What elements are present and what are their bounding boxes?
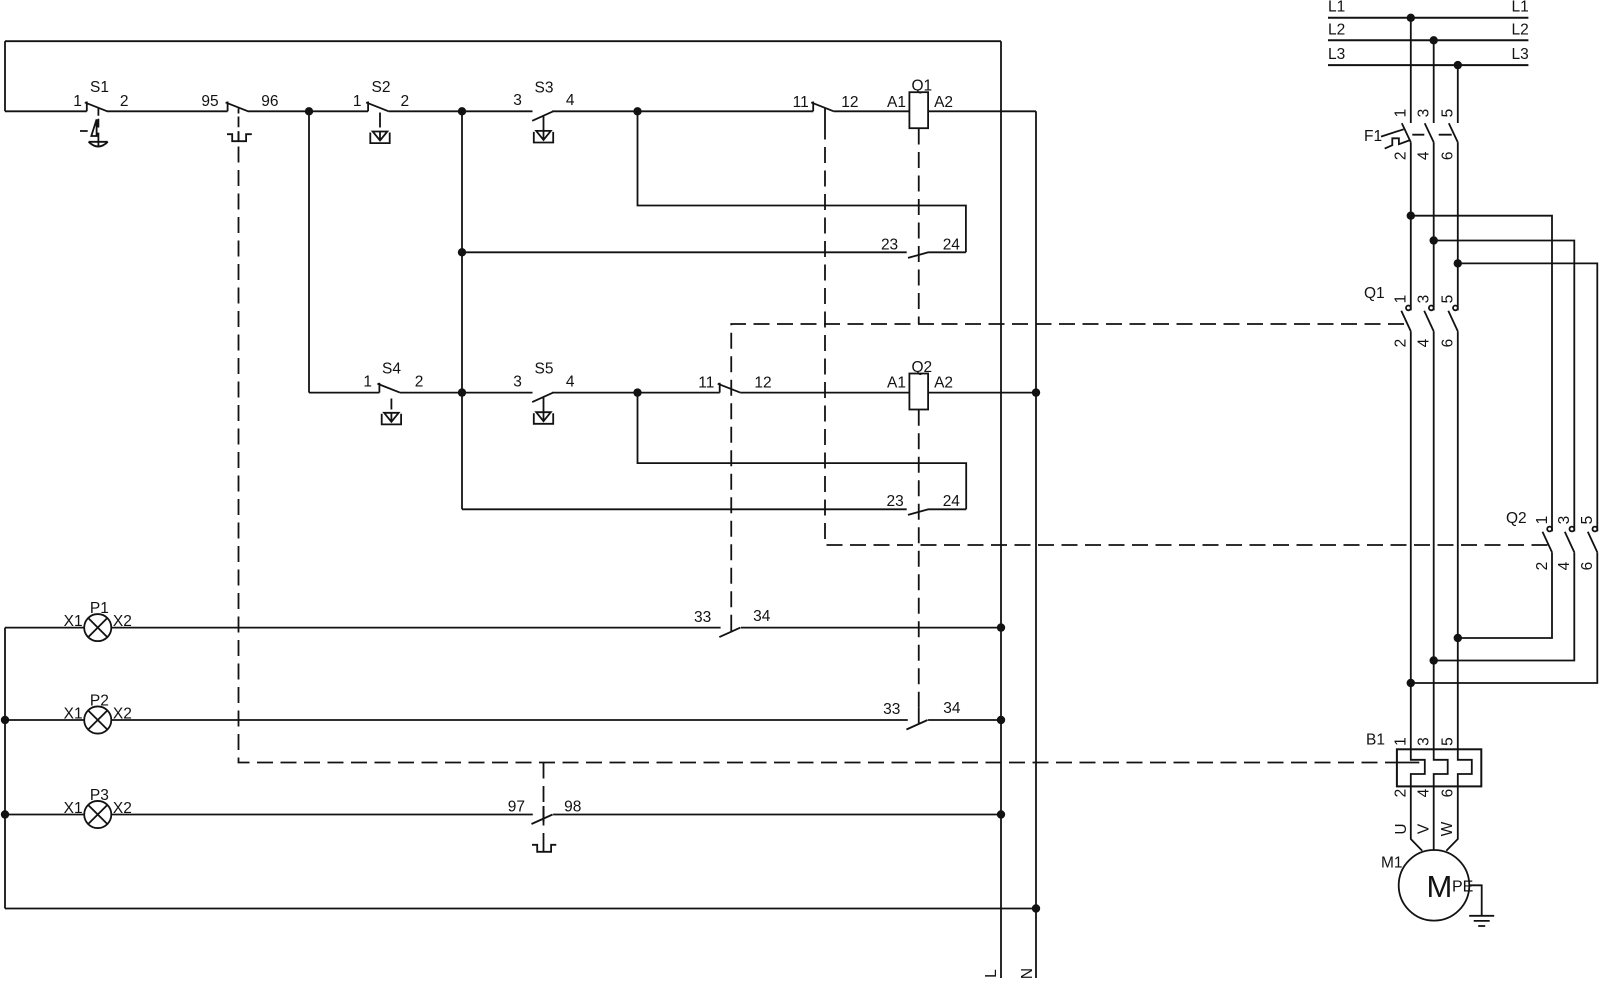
wire bottom rail N — [5, 908, 1036, 910]
svg-text:N: N — [1019, 968, 1036, 979]
svg-text:3: 3 — [1416, 295, 1433, 304]
contact 33-34 Q2 — [906, 707, 927, 729]
wire Q2 out1 to col3 — [1458, 552, 1552, 638]
contactor Q2 pole2 — [1565, 532, 1575, 552]
svg-text:P1: P1 — [90, 600, 109, 617]
contactor Q1 pole1 — [1401, 311, 1411, 331]
svg-text:4: 4 — [1416, 151, 1433, 160]
svg-text:5: 5 — [1440, 295, 1457, 304]
svg-text:B1: B1 — [1366, 732, 1385, 749]
contactor Q1 pole2 — [1424, 311, 1434, 331]
svg-text:X1: X1 — [64, 613, 83, 630]
svg-text:11: 11 — [793, 94, 809, 111]
wire S2-S4 junction vertical — [461, 111, 463, 509]
node L vertical — [1000, 41, 1002, 978]
svg-text:Q2: Q2 — [1506, 510, 1527, 527]
svg-text:1: 1 — [1534, 516, 1551, 525]
bus L1 — [1328, 17, 1528, 19]
svg-text:4: 4 — [1416, 788, 1433, 797]
breaker F1 pole2 — [1425, 123, 1434, 142]
contact 23-24 Q2 — [908, 509, 928, 515]
junction dots power — [1407, 14, 1462, 688]
svg-text:1: 1 — [1393, 737, 1410, 746]
svg-text:Q1: Q1 — [911, 78, 932, 95]
breaker F1 label leader — [1381, 129, 1404, 136]
svg-text:6: 6 — [1440, 789, 1457, 798]
contact 97-98 trip symbol — [532, 842, 556, 852]
pushbutton S3 — [532, 111, 553, 139]
coil Q2 — [909, 374, 928, 410]
svg-text:A1: A1 — [887, 94, 906, 111]
svg-text:4: 4 — [566, 374, 575, 391]
svg-text:L1: L1 — [1328, 0, 1345, 16]
wire row2 branch to latch Q2 — [638, 393, 967, 510]
breaker F1 pole links — [1412, 134, 1451, 136]
junction dots control — [1, 107, 1040, 913]
pushbutton S2 actuator — [370, 132, 389, 144]
svg-text:S3: S3 — [535, 79, 554, 96]
wire column3 L3 — [1457, 65, 1459, 749]
svg-text:L: L — [983, 969, 1000, 978]
svg-text:97: 97 — [508, 798, 525, 815]
contact 11-12 Q2 row1 — [811, 102, 834, 124]
relay B1 box — [1397, 749, 1481, 786]
mech link F1 aux chain to B1 — [239, 147, 1397, 763]
mech link solid overlays — [239, 131, 544, 822]
mech link Q1 coil chain down — [918, 129, 920, 325]
node N vertical — [1035, 111, 1037, 978]
SEC-DASHED — [1328, 18, 1528, 65]
svg-text:1: 1 — [73, 93, 82, 110]
svg-text:34: 34 — [943, 700, 961, 717]
mech link 97-98 stem — [543, 763, 545, 842]
svg-text:U: U — [1393, 823, 1410, 834]
svg-text:4: 4 — [566, 92, 575, 109]
breaker F1 pole3 — [1449, 123, 1458, 142]
contact 11-12 Q1 row2 — [718, 383, 741, 393]
svg-text:3: 3 — [513, 92, 522, 109]
mech link Q1 chain horizontal and down to 33-34 P1 — [731, 324, 1404, 615]
relay B1 element1 — [1411, 749, 1425, 786]
mech link Q2 chain: 11-12 row1 down to Q2 power — [825, 124, 1548, 546]
svg-text:A1: A1 — [887, 374, 906, 391]
wire row2 segments — [309, 392, 1036, 394]
svg-text:X2: X2 — [113, 706, 132, 723]
wire B1 to motor W — [1446, 786, 1458, 850]
contactor Q2 pole3 — [1588, 532, 1598, 552]
contact 33-34 Q1 — [719, 615, 740, 637]
svg-text:12: 12 — [754, 374, 771, 391]
wire latch Q1 row — [462, 251, 966, 253]
contact 23-24 Q1 — [908, 252, 928, 258]
wire Q2 out3 to col1 — [1411, 552, 1598, 683]
svg-text:M1: M1 — [1381, 855, 1403, 872]
pushbutton S5 actuator — [534, 412, 553, 424]
svg-text:S2: S2 — [372, 79, 391, 96]
mech link Q2 coil chain down to 33-34 P2 — [918, 410, 920, 707]
lamp P1 — [84, 614, 111, 641]
svg-text:24: 24 — [943, 493, 961, 510]
svg-text:5: 5 — [1579, 516, 1596, 525]
svg-text:2: 2 — [415, 374, 424, 391]
svg-text:1: 1 — [363, 374, 372, 391]
svg-text:PE: PE — [1452, 878, 1473, 895]
contactor Q1 pole3 — [1448, 311, 1458, 331]
mech link S4 — [390, 399, 392, 410]
relay B1 element2 — [1434, 749, 1448, 786]
svg-text:X1: X1 — [64, 800, 83, 817]
wire branch L3 to Q2 — [1458, 263, 1598, 531]
svg-text:2: 2 — [1534, 562, 1551, 571]
pushbutton S4 — [377, 383, 400, 393]
svg-text:6: 6 — [1440, 339, 1457, 348]
wire latch Q2 row — [462, 508, 966, 510]
mech link B1 entry solid — [1397, 762, 1419, 764]
SEC-CONTROL — [239, 124, 1549, 842]
svg-text:L1: L1 — [1512, 0, 1529, 16]
svg-text:A2: A2 — [934, 94, 953, 111]
svg-text:1: 1 — [1393, 109, 1410, 118]
breaker F1 trip symbol — [1385, 138, 1410, 148]
svg-text:S1: S1 — [90, 79, 109, 96]
switch S1 actuator — [80, 119, 108, 146]
contactor Q2 pole1 — [1543, 532, 1553, 552]
pushbutton S4 actuator — [382, 413, 401, 425]
bus L3 — [1328, 64, 1528, 66]
svg-text:6: 6 — [1440, 151, 1457, 160]
wire row1 segments — [5, 110, 1036, 112]
svg-text:W: W — [1439, 821, 1456, 836]
svg-text:33: 33 — [883, 701, 900, 718]
svg-text:3: 3 — [1556, 516, 1573, 525]
svg-text:1: 1 — [353, 93, 362, 110]
contact 97-98 F1 — [532, 806, 553, 824]
wire branch L1 to Q2 — [1411, 216, 1552, 532]
svg-text:34: 34 — [753, 608, 771, 625]
wire B1 to motor V — [1433, 786, 1435, 849]
svg-text:P3: P3 — [90, 787, 109, 804]
ground wire — [1469, 885, 1481, 916]
svg-text:Q1: Q1 — [1364, 285, 1385, 302]
svg-text:F1: F1 — [1364, 128, 1382, 145]
svg-text:1: 1 — [1393, 295, 1410, 304]
pushbutton S2 — [366, 102, 389, 112]
svg-text:A2: A2 — [934, 374, 953, 391]
svg-text:L3: L3 — [1512, 46, 1529, 63]
svg-text:2: 2 — [1393, 151, 1410, 160]
svg-text:X1: X1 — [64, 706, 83, 723]
pushbutton S5 — [532, 393, 553, 421]
wire B1 to motor U — [1411, 786, 1422, 850]
svg-text:33: 33 — [694, 609, 711, 626]
bus L2 — [1328, 39, 1528, 41]
svg-text:P2: P2 — [90, 693, 109, 710]
wire lamp left vertical — [4, 628, 6, 909]
lamp P3 — [84, 801, 111, 828]
svg-text:2: 2 — [1393, 789, 1410, 798]
svg-text:L3: L3 — [1328, 46, 1345, 63]
svg-text:M: M — [1427, 869, 1453, 904]
svg-text:5: 5 — [1440, 109, 1457, 118]
svg-text:V: V — [1416, 823, 1433, 834]
svg-text:12: 12 — [841, 94, 858, 111]
wire row1 branch to latch Q1 — [638, 111, 966, 252]
svg-text:L2: L2 — [1328, 22, 1345, 39]
ground symbol — [1469, 916, 1494, 926]
svg-text:23: 23 — [881, 237, 898, 254]
svg-text:X2: X2 — [113, 613, 132, 630]
motor M1 — [1399, 850, 1470, 921]
wire branch L2 to Q2 — [1434, 241, 1575, 532]
svg-text:S5: S5 — [535, 361, 554, 378]
wire column1 L1 — [1410, 18, 1412, 750]
svg-text:L2: L2 — [1512, 22, 1529, 39]
breaker F1 pole1 — [1402, 123, 1411, 142]
wire P3 row — [5, 814, 1001, 816]
relay B1 element3 — [1458, 749, 1472, 786]
svg-text:4: 4 — [1556, 561, 1573, 570]
wire column2 L2 — [1433, 40, 1435, 749]
svg-text:X2: X2 — [113, 800, 132, 817]
svg-text:3: 3 — [1416, 737, 1433, 746]
switch S1 — [85, 102, 108, 112]
wire Q2 out2 to col2 — [1434, 552, 1575, 660]
wire S2 parallel vertical — [308, 111, 310, 392]
svg-text:6: 6 — [1579, 562, 1596, 571]
coil Q1 — [909, 92, 928, 128]
svg-text:23: 23 — [887, 493, 904, 510]
wire left edge — [4, 41, 6, 111]
svg-text:3: 3 — [1416, 109, 1433, 118]
wire P2 row — [5, 719, 1001, 721]
svg-text:24: 24 — [943, 237, 961, 254]
svg-text:2: 2 — [401, 93, 410, 110]
svg-text:S4: S4 — [382, 361, 401, 378]
pushbutton S3 actuator — [534, 131, 553, 143]
svg-text:96: 96 — [261, 93, 278, 110]
svg-text:2: 2 — [1393, 339, 1410, 348]
wire top rail L — [5, 40, 1001, 42]
mech link S1 — [97, 108, 99, 127]
svg-text:2: 2 — [120, 93, 129, 110]
contact 95-96 F1 — [226, 102, 249, 112]
svg-text:Q2: Q2 — [911, 359, 932, 376]
mech link S2 — [379, 113, 381, 128]
lamp P2 — [84, 706, 111, 733]
svg-text:5: 5 — [1440, 737, 1457, 746]
svg-text:3: 3 — [513, 374, 522, 391]
svg-text:98: 98 — [564, 798, 581, 815]
svg-text:4: 4 — [1416, 338, 1433, 347]
svg-text:11: 11 — [698, 374, 714, 391]
svg-text:95: 95 — [201, 93, 218, 110]
contact 95-96 trip symbol — [227, 131, 252, 141]
wire P1 row — [5, 627, 1001, 629]
mech link 95-96 upper stem — [238, 109, 240, 128]
